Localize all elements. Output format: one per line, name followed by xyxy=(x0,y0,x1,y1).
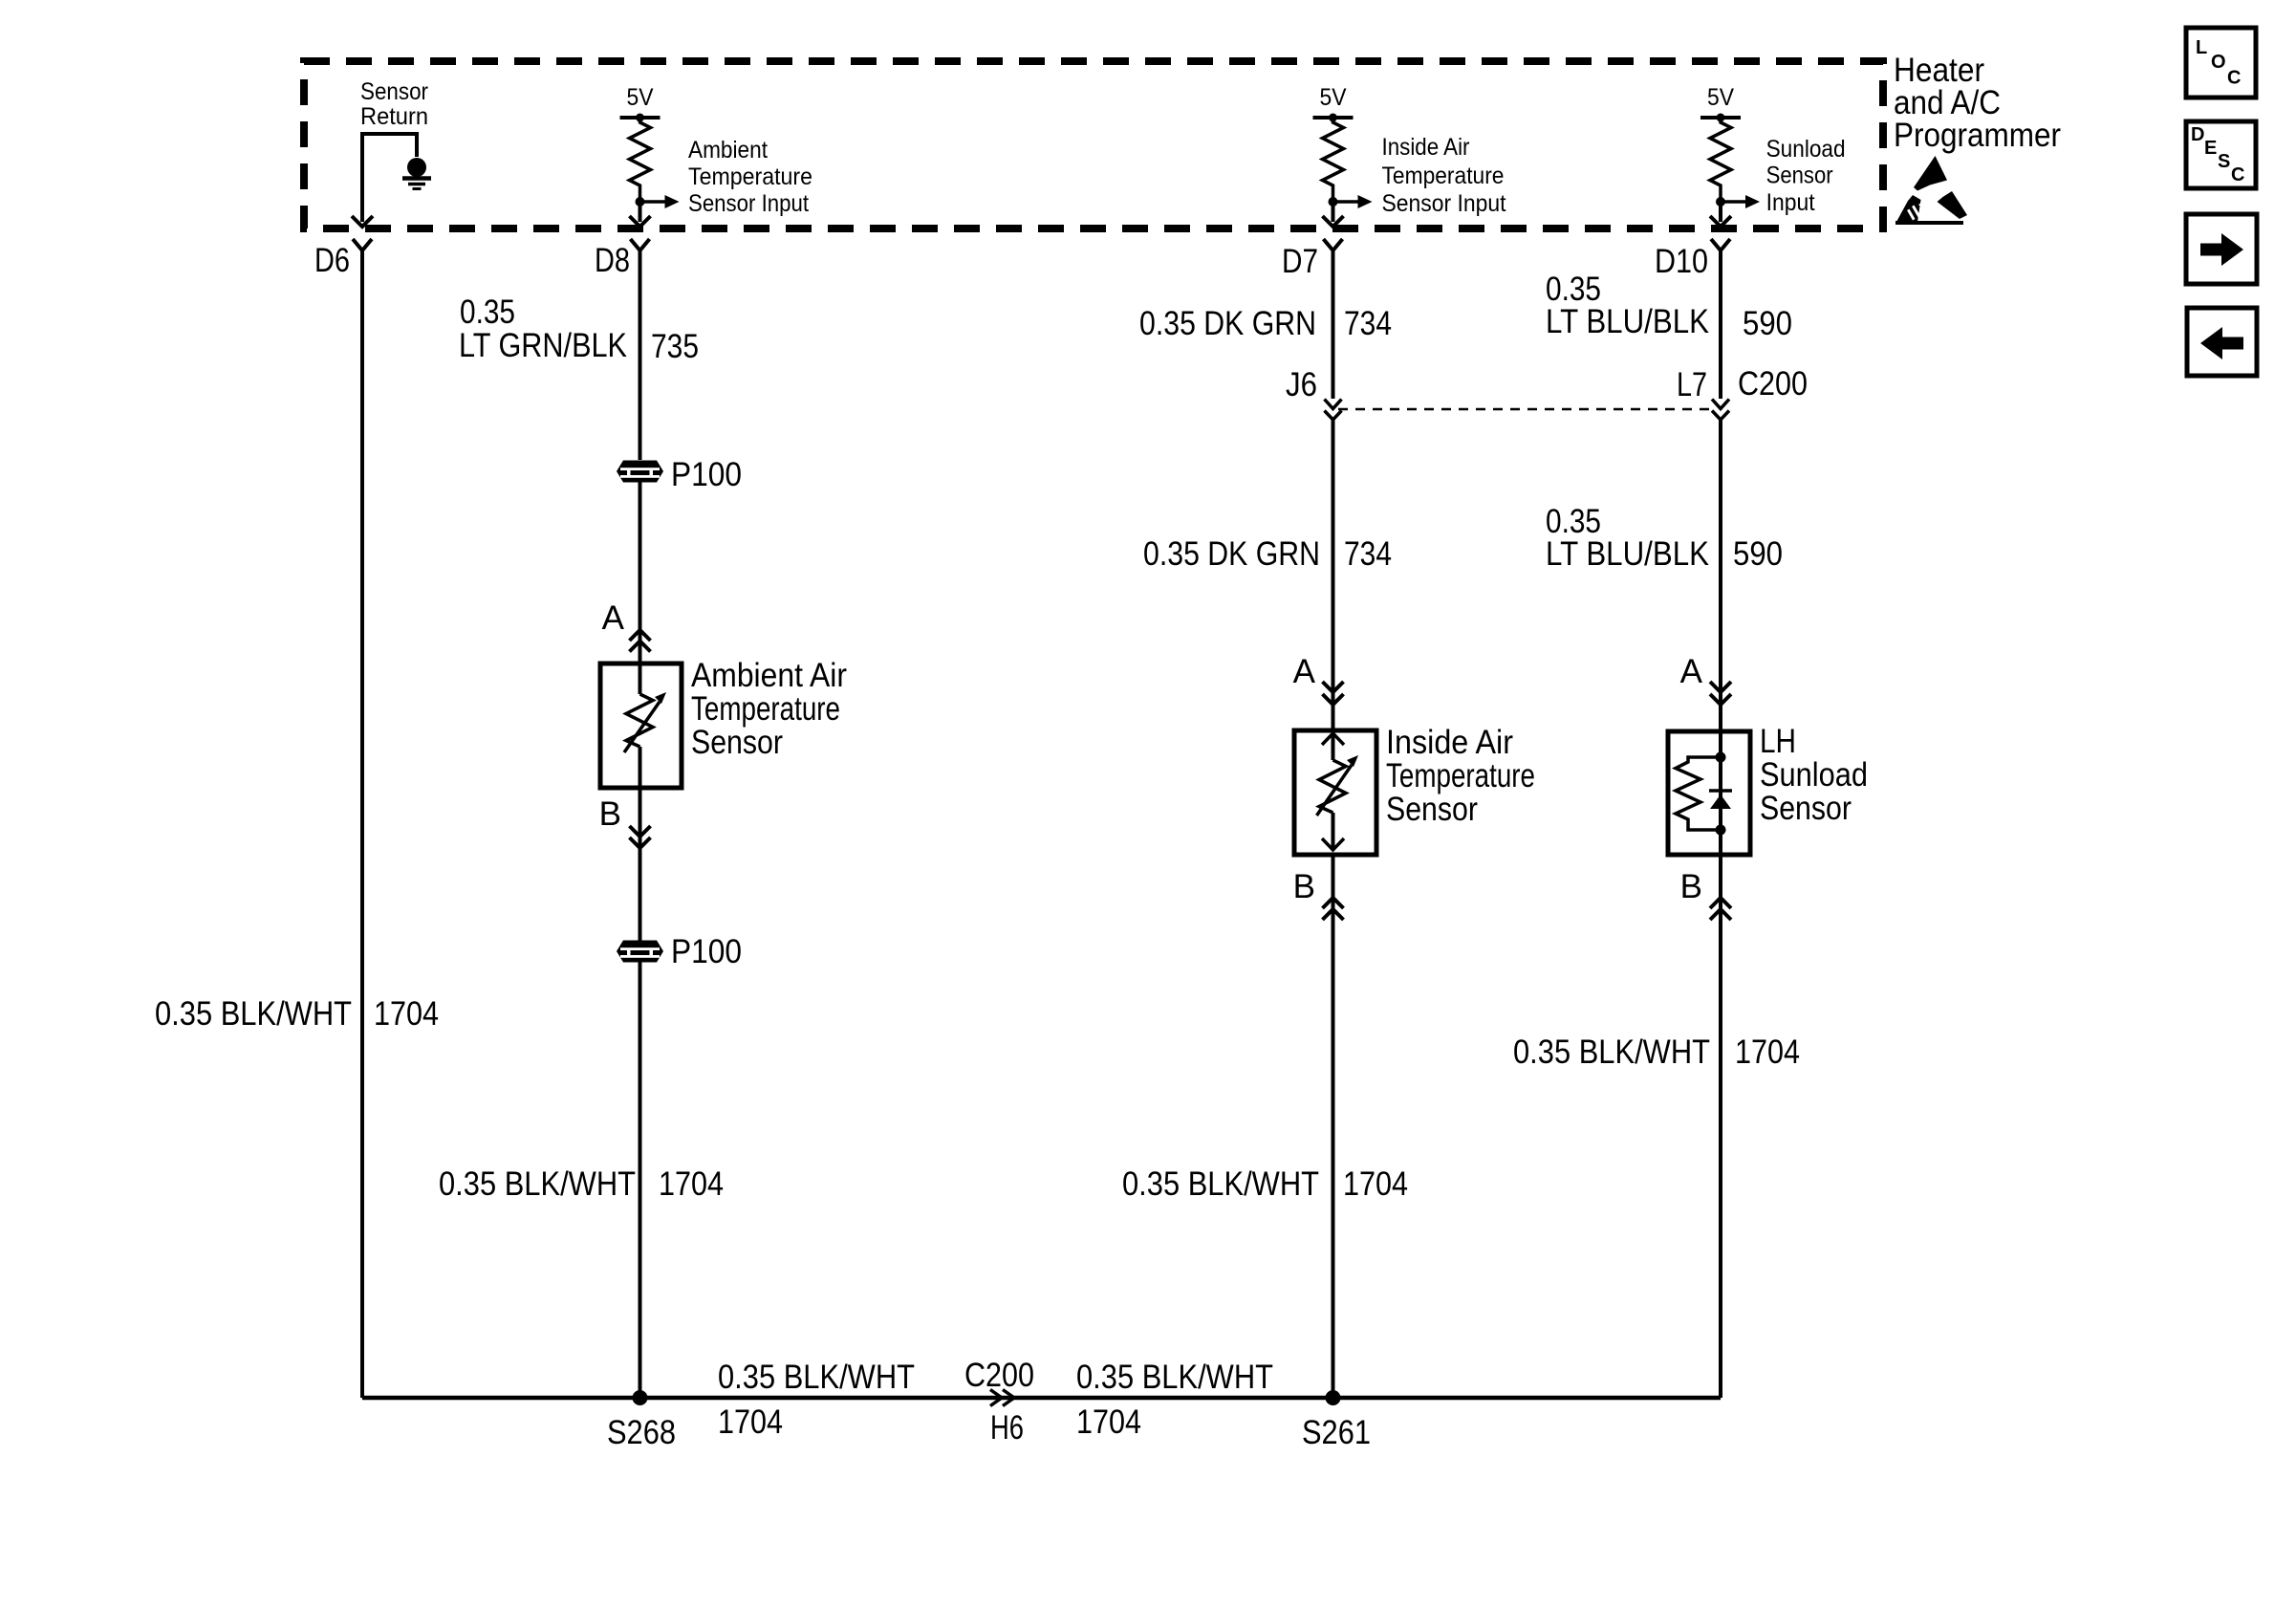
svg-text:P100: P100 xyxy=(671,933,742,970)
svg-text:C: C xyxy=(2227,68,2241,89)
svg-text:L7: L7 xyxy=(1677,366,1707,403)
wire 0.35 LT BLU/BLK 590 (upper) xyxy=(1719,250,1722,399)
svg-text:H6: H6 xyxy=(990,1409,1024,1447)
svg-text:Sensor Input: Sensor Input xyxy=(1382,190,1506,217)
wire ground bus 0.35 BLK/WHT 1704 xyxy=(362,1396,1721,1401)
svg-text:0.35 BLK/WHT: 0.35 BLK/WHT xyxy=(155,995,352,1033)
svg-text:O: O xyxy=(2211,52,2226,73)
resistor pull-up (D10 column) xyxy=(1710,118,1731,197)
LOC reference box xyxy=(2186,28,2256,98)
svg-text:Temperature: Temperature xyxy=(688,163,812,190)
photodiode (sunload) xyxy=(1709,789,1732,793)
wire 0.35 DK GRN 734 (upper) xyxy=(1332,250,1335,399)
svg-text:5V: 5V xyxy=(1707,84,1734,111)
svg-text:D8: D8 xyxy=(595,242,630,279)
svg-text:Sensor: Sensor xyxy=(360,78,428,105)
svg-text:Input: Input xyxy=(1766,189,1815,216)
resistor pull-up (D7 column) xyxy=(1323,118,1344,197)
svg-text:Sunload: Sunload xyxy=(1760,756,1868,794)
svg-text:Inside Air: Inside Air xyxy=(1386,724,1513,761)
resistor (sunload) xyxy=(1676,757,1721,830)
svg-text:1704: 1704 xyxy=(718,1403,783,1441)
connector C200 body (dashed) xyxy=(1338,408,1712,411)
svg-text:S268: S268 xyxy=(607,1414,676,1451)
svg-text:Sensor Input: Sensor Input xyxy=(688,190,809,217)
svg-text:Sensor: Sensor xyxy=(1766,163,1833,189)
svg-text:S261: S261 xyxy=(1302,1414,1371,1451)
connector P100 (lower grommet) xyxy=(617,941,663,963)
wire D8 lower 0.35 BLK/WHT xyxy=(639,788,642,941)
svg-text:1704: 1704 xyxy=(659,1165,724,1203)
wire D6 arrow into pin xyxy=(352,216,373,227)
svg-text:Programmer: Programmer xyxy=(1894,117,2061,154)
svg-text:D6: D6 xyxy=(314,242,350,279)
arrow previous box xyxy=(2187,308,2257,376)
svg-text:S: S xyxy=(2218,151,2230,172)
svg-text:0.35 BLK/WHT: 0.35 BLK/WHT xyxy=(1076,1359,1273,1396)
svg-text:E: E xyxy=(2204,138,2217,159)
svg-text:Ambient Air: Ambient Air xyxy=(691,657,847,694)
wire arrow into pin (D7) xyxy=(1323,216,1344,227)
svg-text:D: D xyxy=(2191,124,2204,145)
resistor pull-up (D8 column) xyxy=(630,118,651,197)
svg-text:1704: 1704 xyxy=(374,995,439,1033)
wire 0.35 BLK/WHT 1704 (D7 column) xyxy=(1332,855,1335,1398)
wire arrow into pin (D8) xyxy=(630,216,651,227)
svg-text:LT BLU/BLK: LT BLU/BLK xyxy=(1546,303,1709,340)
svg-text:Temperature: Temperature xyxy=(691,690,840,728)
ambient air temperature sensor (thermistor) xyxy=(600,664,682,788)
svg-text:C: C xyxy=(2231,164,2244,185)
svg-text:A: A xyxy=(602,599,625,637)
svg-text:Sensor: Sensor xyxy=(1760,790,1852,827)
svg-text:Temperature: Temperature xyxy=(1386,757,1535,794)
svg-text:B: B xyxy=(1293,868,1315,905)
node D7 sensor input (arrow) xyxy=(1329,197,1338,207)
svg-text:1704: 1704 xyxy=(1735,1033,1800,1071)
svg-text:590: 590 xyxy=(1733,535,1783,573)
svg-text:P100: P100 xyxy=(671,456,742,493)
svg-text:0.35 BLK/WHT: 0.35 BLK/WHT xyxy=(1513,1033,1710,1071)
splice S268 xyxy=(633,1390,648,1405)
svg-text:590: 590 xyxy=(1743,305,1792,342)
svg-text:Sensor: Sensor xyxy=(691,724,783,761)
ground (chassis ground inside programmer) xyxy=(407,158,426,177)
svg-text:Ambient: Ambient xyxy=(688,137,768,163)
wire 0.35 BLK/WHT 1704 (D10 column) xyxy=(1719,855,1722,1398)
svg-text:C200: C200 xyxy=(1738,365,1808,402)
svg-text:5V: 5V xyxy=(627,84,654,111)
arrow next box xyxy=(2186,214,2257,284)
wire sensor return xyxy=(362,134,417,222)
wire D6 (0.35 BLK/WHT 1704) xyxy=(360,250,364,1398)
svg-text:0.35: 0.35 xyxy=(460,294,515,331)
splice S261 xyxy=(1326,1390,1341,1405)
svg-text:B: B xyxy=(599,795,621,833)
svg-text:LT GRN/BLK: LT GRN/BLK xyxy=(459,327,627,364)
wire D8 to sensor xyxy=(639,482,642,664)
svg-text:A: A xyxy=(1293,653,1316,690)
svg-text:D7: D7 xyxy=(1282,243,1318,280)
svg-text:1704: 1704 xyxy=(1343,1165,1408,1203)
DESC reference box xyxy=(2186,121,2256,188)
svg-text:0.35 DK GRN: 0.35 DK GRN xyxy=(1143,535,1320,573)
svg-text:1704: 1704 xyxy=(1076,1403,1141,1441)
ESD sensitivity symbol xyxy=(1914,156,1947,191)
node D10 sensor input (arrow) xyxy=(1716,197,1725,207)
LH sunload sensor (photodiode + resistor) xyxy=(1668,731,1750,855)
svg-text:A: A xyxy=(1680,653,1703,690)
wire 0.35 DK GRN 734 (lower) xyxy=(1332,420,1335,682)
inside air temperature sensor (thermistor) xyxy=(1294,730,1376,855)
svg-text:LH: LH xyxy=(1760,723,1796,760)
Heater and A/C Programmer (dashed component box) xyxy=(304,61,1883,228)
svg-text:734: 734 xyxy=(1344,305,1392,342)
svg-text:0.35 BLK/WHT: 0.35 BLK/WHT xyxy=(439,1165,636,1203)
svg-text:0.35 BLK/WHT: 0.35 BLK/WHT xyxy=(1122,1165,1319,1203)
svg-text:0.35 BLK/WHT: 0.35 BLK/WHT xyxy=(718,1359,915,1396)
svg-text:D10: D10 xyxy=(1655,243,1708,280)
svg-text:5V: 5V xyxy=(1320,84,1347,111)
svg-text:735: 735 xyxy=(651,328,699,365)
wire 0.35 LT BLU/BLK 590 (lower) xyxy=(1719,420,1722,682)
svg-text:C200: C200 xyxy=(964,1357,1034,1394)
connector P100 (upper grommet) xyxy=(617,461,663,483)
svg-text:Sunload: Sunload xyxy=(1766,136,1846,163)
wire 0.35 LT GRN/BLK 735 xyxy=(639,250,642,460)
svg-text:Inside Air: Inside Air xyxy=(1382,134,1470,161)
svg-text:Sensor: Sensor xyxy=(1386,791,1478,828)
svg-text:L: L xyxy=(2196,37,2207,58)
svg-text:0.35 DK GRN: 0.35 DK GRN xyxy=(1139,305,1316,342)
svg-text:J6: J6 xyxy=(1286,366,1317,403)
wire arrow into pin (D10) xyxy=(1710,216,1731,227)
svg-text:LT BLU/BLK: LT BLU/BLK xyxy=(1546,535,1709,573)
svg-text:Temperature: Temperature xyxy=(1382,163,1505,189)
node D8 sensor input (arrow) xyxy=(636,197,645,207)
svg-text:Return: Return xyxy=(360,103,428,130)
svg-text:734: 734 xyxy=(1344,535,1392,573)
svg-text:B: B xyxy=(1680,868,1702,905)
